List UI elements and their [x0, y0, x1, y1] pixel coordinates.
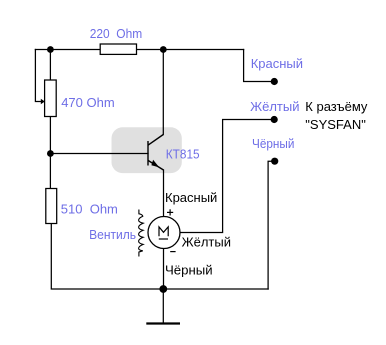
wire pot bottom to base node	[49, 117, 51, 189]
wire base	[50, 153, 148, 155]
minus	[170, 251, 175, 253]
motor M1	[148, 217, 180, 249]
terminal dot yellow	[271, 116, 278, 123]
svg-text:220 Ohm: 220 Ohm	[90, 26, 143, 41]
svg-text:Жёлтый: Жёлтый	[182, 235, 231, 250]
terminal dot black	[271, 158, 278, 165]
wire yellow	[180, 120, 274, 233]
svg-text:Вентиль: Вентиль	[89, 227, 136, 242]
fan squiggle	[139, 210, 144, 257]
wiper arrow	[41, 99, 45, 105]
svg-text:Красный: Красный	[251, 56, 303, 71]
svg-text:510 Ohm: 510 Ohm	[61, 201, 118, 216]
motor M symbol	[159, 227, 168, 239]
wire top rail	[35, 49, 100, 51]
plus	[167, 209, 173, 215]
svg-text:К разъёму: К разъёму	[305, 99, 368, 114]
ground	[146, 322, 180, 324]
svg-text:Красный: Красный	[165, 190, 217, 205]
transistor VT1 KT815 highlight	[112, 127, 182, 173]
wire wiper left	[35, 50, 41, 102]
svg-text:КТ815: КТ815	[166, 146, 200, 161]
svg-text:Чёрный: Чёрный	[165, 263, 213, 278]
ground stub	[162, 289, 164, 323]
wire pot top	[49, 50, 51, 81]
emitter arrow	[151, 160, 159, 168]
terminal dot red	[271, 78, 278, 85]
junction dot top-mid	[160, 46, 167, 53]
wire top rail right of R1	[137, 49, 244, 51]
junction dot bottom	[159, 285, 167, 293]
wire collector vertical	[162, 50, 164, 135]
svg-text:Чёрный: Чёрный	[252, 136, 294, 151]
wire red drop	[244, 50, 275, 82]
resistor R1 220 Ohm	[100, 44, 136, 54]
transistor VT1 KT815	[148, 135, 164, 171]
wire black terminal	[268, 161, 275, 289]
wire emitter to motor	[163, 170, 165, 217]
potentiometer R2 470 Ohm	[45, 80, 57, 117]
svg-text:Жёлтый: Жёлтый	[250, 99, 299, 114]
svg-text:"SYSFAN": "SYSFAN"	[305, 117, 366, 132]
wire motor bottom	[163, 249, 165, 290]
resistor R3 510 Ohm	[46, 189, 57, 224]
wire R3 bottom to rail	[51, 224, 268, 290]
junction dot base node	[47, 150, 54, 157]
svg-text:470 Ohm: 470 Ohm	[61, 95, 114, 110]
junction dot top-left	[47, 46, 54, 53]
